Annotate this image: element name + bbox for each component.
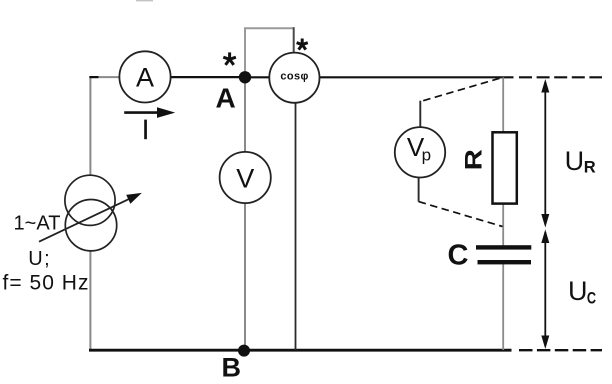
- voltmeter Vp: [395, 127, 445, 177]
- wire: left rail lower (transformer to bottom rail): [89, 251, 91, 351]
- svg-text:B: B: [222, 353, 242, 383]
- svg-text:cosφ: cosφ: [280, 71, 308, 83]
- svg-text:p: p: [422, 145, 431, 164]
- wire: cos-phi voltage loop from node A to top terminal: [245, 28, 294, 77]
- svg-text:C: C: [448, 240, 469, 272]
- wire: ammeter to node A: [171, 76, 245, 78]
- svg-text:V: V: [236, 163, 254, 193]
- svg-text:1~AT: 1~AT: [14, 213, 61, 235]
- label UR: [565, 146, 596, 176]
- ammeter A1: [119, 51, 170, 102]
- svg-text:R: R: [584, 158, 596, 176]
- capacitor C: [476, 245, 531, 264]
- label I: [144, 120, 147, 140]
- wire stub: black corner piece: [89, 76, 98, 78]
- wire: resistor R bottom to capacitor C: [502, 205, 504, 246]
- wire: node A to cos-phi meter: [245, 76, 270, 78]
- polarity mark * at cos-phi top terminal: [297, 39, 308, 50]
- polarity mark * at node A: [223, 52, 236, 65]
- wire: cos-phi meter to R branch junction: [320, 76, 514, 78]
- node A: [239, 71, 251, 83]
- wire: Vp top stub: [419, 101, 421, 128]
- dashed lead: Vp to R-C junction: [419, 202, 503, 227]
- wire: cos-phi bottom terminal to bottom rail: [295, 103, 297, 350]
- label UC: [568, 276, 596, 307]
- svg-text:A: A: [216, 83, 236, 114]
- wire: left rail upper (top corner to transformer): [89, 76, 91, 175]
- wire: top rail dashed extension: [519, 76, 602, 78]
- svg-text:R: R: [461, 149, 488, 170]
- svg-text:A: A: [136, 62, 154, 92]
- wire: bottom rail dashed extension: [519, 349, 602, 351]
- svg-text:U: U: [568, 276, 588, 306]
- wire: capacitor C to bottom rail: [502, 264, 504, 350]
- dashed lead: Vp to top junction: [420, 78, 499, 101]
- voltage arrow UR: [541, 79, 549, 228]
- wire: voltmeter to node B: [244, 203, 246, 350]
- svg-text:U;: U;: [28, 248, 50, 270]
- power-factor meter cos phi: [269, 53, 319, 103]
- wire: cos-phi loop right drop: [293, 27, 295, 52]
- svg-text:U: U: [565, 146, 585, 176]
- autotransformer 1~AT: [39, 175, 142, 251]
- resistor R: [493, 132, 517, 203]
- stray arc (cropped at top edge): [136, 0, 153, 1]
- voltage arrow UC: [541, 230, 549, 350]
- wire: top-left corner to ammeter: [89, 76, 119, 78]
- voltmeter V: [220, 152, 271, 203]
- node B: [238, 345, 250, 357]
- wire: bottom rail: [89, 349, 512, 352]
- svg-text:C: C: [587, 289, 596, 307]
- wire: Vp bottom stub: [418, 177, 420, 201]
- wire: junction to resistor R top: [502, 77, 504, 131]
- wire: node A to voltmeter: [244, 77, 246, 152]
- current arrow I: [124, 107, 175, 118]
- svg-text:f= 50 Hz: f= 50 Hz: [3, 272, 89, 295]
